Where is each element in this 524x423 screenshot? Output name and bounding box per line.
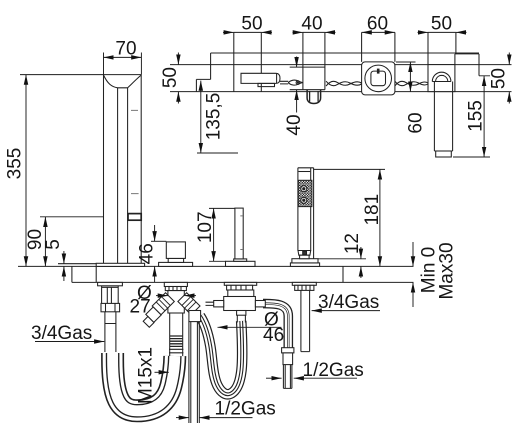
handshower hose connector bbox=[282, 348, 294, 353]
small right block bbox=[455, 54, 479, 76]
spout flange bbox=[96, 263, 144, 266]
handshower above deck bbox=[290, 263, 319, 267]
left vert 50 bbox=[177, 53, 179, 65]
holder dome bbox=[432, 81, 451, 83]
cartridge bbox=[224, 297, 256, 311]
spout column bbox=[104, 74, 142, 76]
mixer below deck bbox=[224, 282, 256, 285]
90 bbox=[40, 216, 104, 218]
spout block right edge + ext bbox=[260, 32, 262, 91]
min0 max30 bbox=[412, 242, 414, 266]
46 bbox=[151, 240, 166, 242]
wavy hose b bbox=[326, 81, 361, 86]
svg-text:M15x1: M15x1 bbox=[136, 347, 157, 404]
right S hose bbox=[200, 316, 242, 394]
svg-text:3/4Gas: 3/4Gas bbox=[318, 292, 379, 313]
svg-text:Max30: Max30 bbox=[437, 242, 458, 299]
svg-text:40: 40 bbox=[301, 14, 322, 35]
flange ext line bbox=[58, 263, 96, 265]
svg-text:3/4Gas: 3/4Gas bbox=[31, 323, 92, 344]
355 bbox=[20, 74, 104, 76]
svg-text:135,5: 135,5 bbox=[204, 93, 225, 141]
135,5 bbox=[200, 81, 202, 153]
svg-text:60: 60 bbox=[367, 14, 388, 35]
diverter outlet bbox=[170, 313, 183, 356]
svg-text:50: 50 bbox=[241, 14, 262, 35]
svg-text:1/2Gas: 1/2Gas bbox=[303, 360, 364, 381]
1/2Gas right bbox=[294, 377, 357, 379]
svg-text:107: 107 bbox=[195, 211, 216, 243]
mixer handle square bbox=[362, 62, 395, 95]
right check valve bbox=[178, 293, 200, 315]
5 bbox=[63, 251, 65, 264]
M15x1 leader bbox=[155, 371, 169, 373]
spout tube plan bbox=[241, 73, 280, 83]
shower handle plan bbox=[434, 82, 452, 152]
top dims bbox=[223, 31, 234, 33]
handshower hose curve bbox=[261, 304, 288, 349]
diverter block bbox=[303, 32, 325, 89]
right valve connector + down pipe bbox=[189, 311, 201, 322]
svg-text:181: 181 bbox=[362, 194, 383, 226]
svg-text:50: 50 bbox=[489, 68, 510, 89]
strip top bbox=[170, 64, 512, 66]
107 bbox=[209, 208, 235, 261]
svg-text:355: 355 bbox=[5, 148, 26, 180]
wavy hose a bbox=[280, 81, 288, 84]
ext 50-top left bbox=[233, 32, 235, 91]
svg-text:46: 46 bbox=[137, 243, 158, 264]
deck bbox=[18, 265, 414, 267]
svg-text:40: 40 bbox=[284, 114, 305, 135]
left step bbox=[196, 53, 210, 92]
wavy hose c bbox=[395, 81, 428, 86]
12 bbox=[318, 258, 366, 260]
O27 bbox=[156, 295, 168, 297]
svg-text:50: 50 bbox=[431, 14, 452, 35]
svg-text:5: 5 bbox=[43, 239, 64, 250]
svg-text:46: 46 bbox=[263, 325, 284, 346]
diverter above deck bbox=[159, 262, 193, 266]
right vert 50 bbox=[508, 53, 510, 65]
spout below deck bbox=[98, 282, 123, 285]
1/2Gas bottom bbox=[199, 417, 252, 419]
svg-text:50: 50 bbox=[160, 67, 181, 88]
strip bottom bbox=[170, 91, 512, 93]
handshower below deck bbox=[292, 282, 316, 285]
upper outline bbox=[211, 52, 479, 54]
svg-text:12: 12 bbox=[342, 233, 363, 254]
holder square bbox=[428, 65, 455, 92]
svg-text:27: 27 bbox=[130, 296, 151, 317]
svg-text:60: 60 bbox=[406, 112, 427, 133]
svg-text:70: 70 bbox=[115, 39, 136, 60]
left U hose bbox=[113, 353, 175, 411]
svg-text:1/2Gas: 1/2Gas bbox=[215, 399, 276, 420]
3/4Gas left leader bbox=[35, 341, 104, 343]
mixer above deck bbox=[226, 261, 256, 266]
left check valve bbox=[152, 293, 174, 315]
vert 60 bbox=[396, 61, 416, 63]
diverter below deck bbox=[164, 282, 187, 286]
diverter knob plan bbox=[307, 90, 321, 104]
155 bbox=[453, 76, 490, 157]
181 bbox=[314, 168, 385, 170]
70 bbox=[104, 53, 142, 75]
svg-text:155: 155 bbox=[466, 100, 487, 132]
3/4Gas right leader bbox=[312, 310, 380, 312]
vert 40 bbox=[296, 57, 298, 68]
O46 leader bbox=[218, 326, 282, 328]
